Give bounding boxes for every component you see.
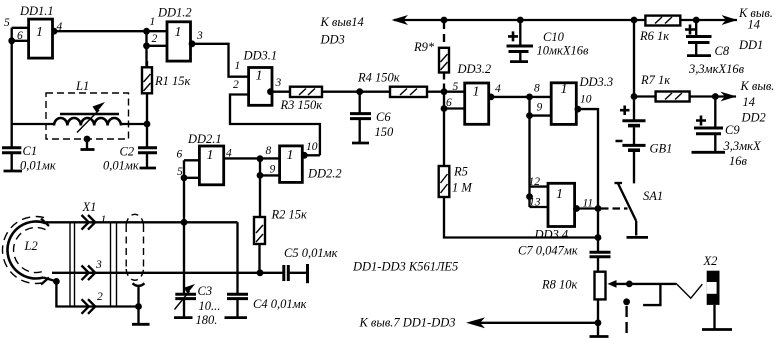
node GB1 branch [631,17,638,24]
node R8 wiper wire [626,281,633,288]
svg-text:3: 3 [196,30,203,42]
resistor R2 [254,217,265,244]
svg-text:К выв14: К выв14 [320,15,364,29]
wire DD1.2 pin 1-2 tie down to R1 [147,31,168,67]
wire DD3.2 inputs 5-6 tie down to R5 [444,92,465,166]
resistor R3 [290,87,322,97]
svg-text:5: 5 [453,81,459,93]
node DD3.3 input 9 [526,112,533,119]
resistor R4 [390,87,427,97]
wire DD3.4 output 11 [575,207,598,209]
node DD2.1 input branch on pin1 row [181,219,188,226]
wire shield tail to pin2 row [133,283,145,324]
svg-text:С1: С1 [23,144,38,158]
resistor R5 [439,166,450,197]
ground (C10) [510,60,528,63]
node L1 shield ground tap [84,136,91,143]
capacitor C1 [2,124,21,171]
svg-text:С10: С10 [543,30,565,44]
inductor L1 coil [12,102,147,133]
svg-text:1: 1 [556,187,563,202]
node DD1.2 pin 2 [143,42,150,49]
ground (C9) [692,151,726,154]
gate DD3.1 [249,68,272,106]
ground (C8) [687,54,711,57]
svg-text:С3: С3 [198,284,213,298]
arrow to pin 7 [466,317,485,328]
svg-text:13: 13 [529,197,541,209]
ground (C2) [140,167,157,170]
svg-text:0,01мк: 0,01мк [20,159,56,173]
node DD1.2 pin 1 [143,28,150,35]
gate DD1.1 [29,19,53,58]
wire R5 bottom to output node column [444,197,598,238]
capacitor C7 [590,252,611,256]
svg-text:10мкХ16в: 10мкХ16в [537,44,589,58]
svg-text:6: 6 [177,149,183,161]
svg-text:1: 1 [235,60,241,72]
arrow to pin 14 DD2 [721,92,737,102]
svg-text:8: 8 [266,145,272,157]
node L2 bottom junction [53,278,60,285]
svg-text:2: 2 [97,291,103,303]
svg-text:R3 150к: R3 150к [280,98,323,112]
wire DD1.1 output 4 to DD1.2 input 1 [53,30,147,32]
wire shield to ground [86,139,88,150]
svg-text:R7 1к: R7 1к [640,73,670,87]
wire X1 pin1 row [46,221,238,223]
node shield to contact 2 [135,303,142,310]
node DD3.4 output 11 [573,205,580,212]
node DD3.4 input tie [526,193,533,200]
node DD2.2 input 8 [257,155,264,162]
gate DD3.2 [465,83,489,124]
node DD3.3 output 10 [575,106,582,113]
battery GB1 [616,106,646,184]
node DD3.2 input 6 [441,105,448,112]
svg-text:4: 4 [57,21,63,33]
wire DD2.1 inputs 5-6 bracket [184,160,199,178]
node DD1.2 output 3 [189,40,196,47]
wire L2 junction down to pin2 row [56,281,138,306]
svg-text:R5: R5 [453,165,468,179]
connector X2 plug tip [676,283,702,298]
svg-text:GB1: GB1 [650,142,673,156]
svg-text:SA1: SA1 [643,189,663,203]
capacitor C8 (polarized) [685,20,712,56]
svg-text:DD2.1: DD2.1 [187,132,222,146]
svg-text:С4 0,01мк: С4 0,01мк [253,297,307,311]
node DD2.1 pin 5 junction [181,174,188,181]
svg-text:DD3: DD3 [320,33,345,47]
switch SA1 [601,183,648,237]
connector X2 jack body [707,271,720,305]
gate DD3.3 [551,83,576,125]
ground (shield) [132,323,150,326]
wire L2 bottom to X1 pin3 row [52,272,284,274]
node DD3.2 output 4 [488,94,495,101]
node DD1.1 pins 5-6 junction [8,37,15,44]
svg-text:DD1.1: DD1.1 [19,4,54,18]
svg-text:L2: L2 [24,239,38,253]
wire DD3.3 input 9 tie down to DD3.4 inputs [530,97,552,207]
node R1 bottom / L1 right [144,121,151,128]
svg-text:С9: С9 [725,123,740,137]
resistor R1 [142,61,152,124]
wire X2 to ground [713,305,715,330]
svg-text:150: 150 [375,125,395,139]
svg-text:2: 2 [152,33,158,45]
svg-text:DD3.1: DD3.1 [243,49,278,63]
ground (L1 shield) [81,148,95,151]
svg-text:R6 1к: R6 1к [639,29,669,43]
svg-text:DD1: DD1 [738,38,763,52]
node C9 top [712,93,719,100]
ground (C4) [225,316,248,319]
svg-text:DD1.2: DD1.2 [157,6,192,20]
wire output column through C7 [597,209,599,272]
gate DD1.2 [167,22,191,61]
svg-text:3: 3 [95,259,102,271]
svg-text:1: 1 [256,69,263,84]
svg-text:10...: 10... [199,299,221,313]
node C8 top [693,17,700,24]
shield box of L1 (dashed) [46,93,129,139]
cable shield (dashed capsule) [126,214,143,280]
wire DD1.1 inputs 5-6 bracket [12,28,29,41]
svg-text:180.: 180. [196,313,218,327]
svg-text:DD2.2: DD2.2 [307,167,342,181]
wire +supply rail [394,19,737,21]
capacitor C4 [227,222,248,317]
svg-text:К выв.7 DD1-DD3: К выв.7 DD1-DD3 [359,316,456,330]
wire DD3.2 output 4 to DD3.3 input 8 [489,96,552,98]
svg-text:К выв.: К выв. [740,79,775,93]
connector X2 break contact [623,298,630,334]
node R7 branch [631,93,638,100]
potentiometer R8 [595,272,676,337]
gate DD3.4 [548,183,575,226]
connector X2 sleeve hook [643,284,660,305]
gate DD2.2 [280,146,303,183]
svg-text:R4 150к: R4 150к [357,71,400,85]
capacitor C6 [350,92,371,143]
arrow rail left (to pin 14 DD3) [392,15,409,25]
svg-text:С2: С2 [120,145,135,159]
svg-text:2: 2 [233,79,239,91]
svg-text:DD3.4: DD3.4 [534,228,569,242]
svg-text:8: 8 [534,83,540,95]
svg-text:14: 14 [748,18,761,32]
svg-text:0,01мк: 0,01мк [103,159,139,173]
antenna coil L2 [2,217,56,285]
capacitor C10 (polarized) [507,20,534,62]
wire DD3.1 output 3 through R3, R4 to DD3.2 input 5 [272,91,465,93]
wire DD3.4 inputs 12-13 stubs [530,187,549,207]
svg-text:R9*: R9* [413,40,435,54]
node output junction at switch column [595,205,602,212]
gate DD2.1 [199,146,223,185]
ground (C3) [174,316,193,319]
wire R7 row [634,95,736,97]
svg-text:С8: С8 [715,44,730,58]
connector X1 contact 2 (chevrons) [82,299,96,314]
arrow to pin 14 DD1 [722,15,738,25]
node DD3.1 output 3 [267,88,274,95]
node DD1.1 output 4 [51,28,58,35]
svg-text:10: 10 [580,94,592,106]
ground (X2) [702,328,732,331]
cable lines X1 [70,222,117,306]
svg-text:5: 5 [177,166,183,178]
node DD3.3 input 8 [526,94,533,101]
capacitor C9 (polarized) [694,97,723,153]
svg-text:X1: X1 [82,200,97,214]
node R2 bottom [257,269,264,276]
svg-text:9: 9 [537,102,543,114]
svg-text:L1: L1 [75,79,89,93]
svg-text:DD3.2: DD3.2 [457,62,492,76]
capacitor C3 (variable) [175,284,197,318]
svg-text:DD3.3: DD3.3 [579,75,614,89]
svg-text:4: 4 [495,83,501,95]
svg-text:1 М: 1 М [452,181,472,195]
svg-text:1: 1 [207,148,214,163]
wire R2 bottom to pin3 row [258,244,260,273]
svg-text:1: 1 [561,82,568,97]
svg-text:12: 12 [529,176,541,188]
ground (R8) [590,335,609,338]
svg-text:6: 6 [446,97,452,109]
node C10 top [517,17,524,24]
capacitor C2 [138,124,157,168]
svg-text:X2: X2 [703,254,718,268]
svg-text:С5 0,01мк: С5 0,01мк [284,246,338,260]
svg-text:R2 15к: R2 15к [271,208,308,222]
svg-text:1: 1 [287,148,294,163]
node C7 top junction [595,234,602,241]
resistor R6 [645,16,680,26]
connector X1 contact 1 (chevrons) [82,215,96,230]
node R9 top [441,17,448,24]
svg-text:9: 9 [270,164,276,176]
svg-text:3,3мкХ16в: 3,3мкХ16в [688,62,745,76]
svg-text:DD2: DD2 [741,111,766,125]
wire DD3.3 output 10 down to DD3.4 output node [576,109,598,208]
svg-text:16в: 16в [729,154,748,168]
svg-text:R8 10к: R8 10к [541,278,578,292]
svg-text:3: 3 [275,77,282,89]
resistor R9* (dashed leads) [439,21,449,92]
wire DD2.1 inputs down to pin1 row and C3 [183,178,185,294]
ground (C1) [4,170,23,173]
wire DD1.2 output 3 to DD3.1 input 1 [191,44,249,77]
svg-text:1: 1 [150,16,156,28]
node DD2.2 input 9 [257,172,264,179]
svg-text:С7 0,047мк: С7 0,047мк [518,244,578,258]
wire DD2.2 input 9 tie down to R2 [260,159,280,217]
svg-text:14: 14 [743,95,756,109]
svg-text:6: 6 [17,30,23,42]
node DD3.2 input 5 [441,88,448,95]
resistor R7 [656,92,690,102]
node DD2.2 output 10 [301,152,308,159]
svg-text:1: 1 [101,214,107,226]
ground (C6) [352,142,369,145]
wire battery branch down [633,20,635,121]
svg-text:1: 1 [473,85,480,100]
connector X1 contact 3 (chevrons) [82,266,96,281]
svg-text:С6: С6 [376,110,391,124]
node C6 top junction [356,88,363,95]
svg-text:1: 1 [175,25,182,40]
wire DD1.1 pins to L1 left [11,41,13,124]
capacitor C5 [284,264,308,283]
svg-text:R1 15к: R1 15к [154,74,191,88]
svg-text:3,3мкХ: 3,3мкХ [723,139,762,153]
svg-text:10: 10 [306,141,318,153]
node R8 bottom [595,319,602,326]
svg-text:DD1-DD3 К561ЛЕ5: DD1-DD3 К561ЛЕ5 [352,260,458,274]
wire DD2.1 output 4 to DD2.2 input 8 [224,157,280,159]
svg-text:1: 1 [36,25,43,40]
svg-text:5: 5 [4,17,10,29]
wire DD3.1 input 2 feedback from DD2.2 output 10 [230,95,320,156]
wire to pin 7 of DD1-DD3 [471,322,598,324]
